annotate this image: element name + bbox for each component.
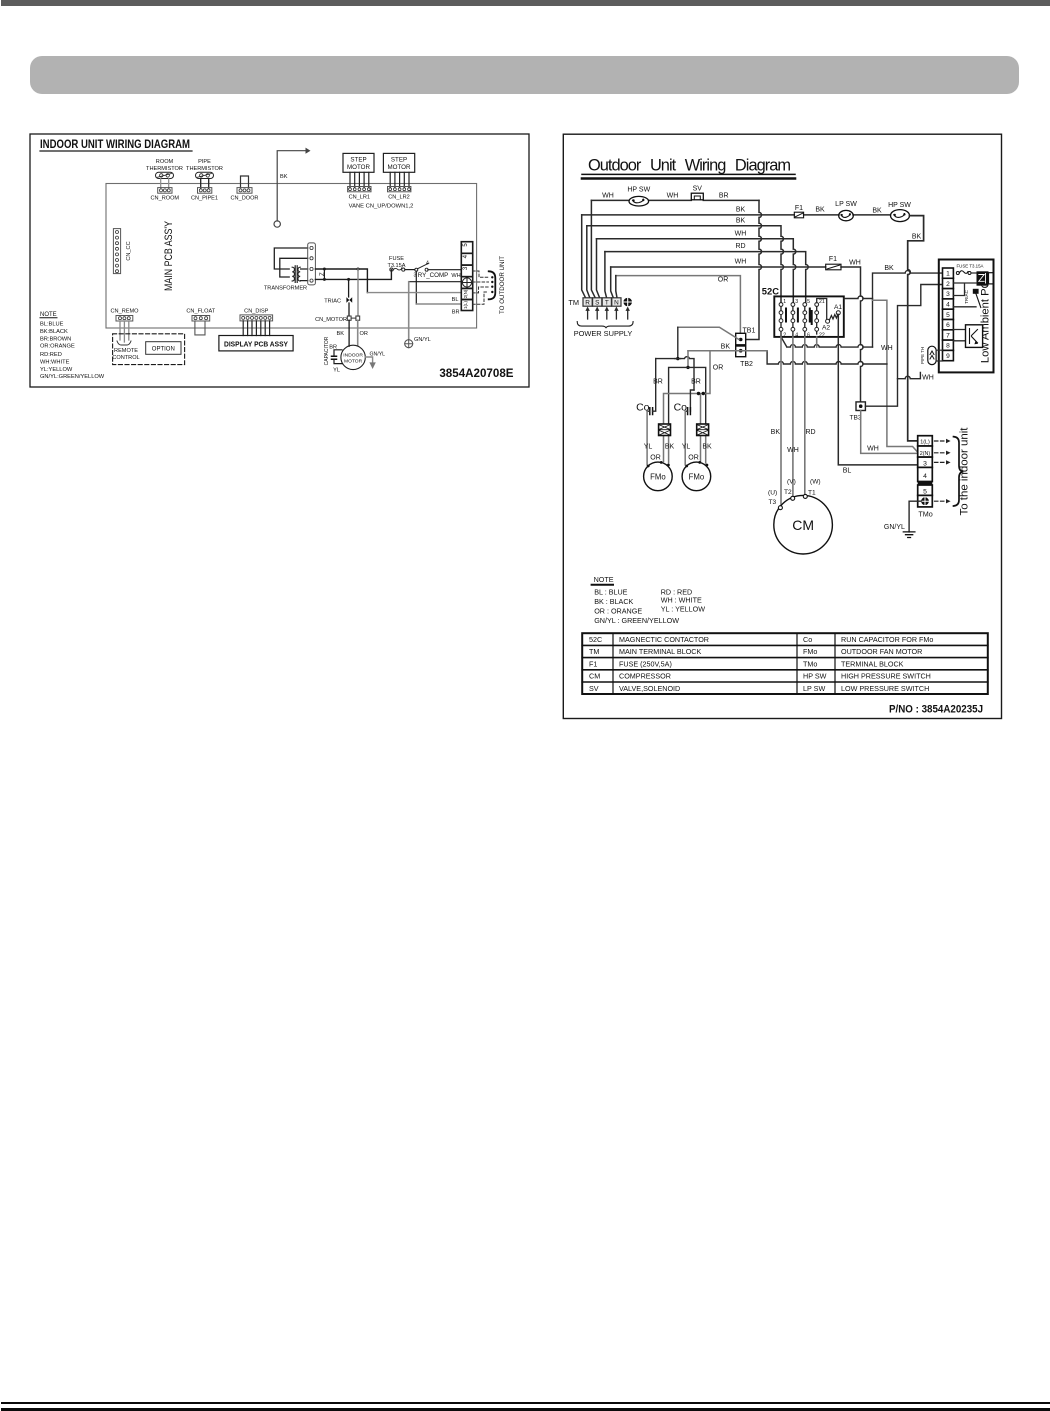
option box (146, 342, 181, 355)
svg-text:GN/YL:GREEN/YELLOW: GN/YL:GREEN/YELLOW (40, 374, 105, 380)
gray rounded header band (30, 56, 1019, 94)
wire BL from coil A1 to TMo 3 (838, 315, 917, 465)
wire BK triac branch (348, 279, 350, 316)
connector CN_TRANS (308, 243, 316, 285)
svg-text:LP SW: LP SW (803, 684, 825, 693)
svg-text:R: R (585, 300, 590, 307)
power supply arrows (588, 309, 628, 320)
PCB transformer blob (977, 271, 989, 285)
svg-text:4: 4 (426, 261, 429, 267)
svg-text:3: 3 (795, 299, 798, 305)
transformer T1 (292, 266, 308, 283)
svg-text:P/NO : 3854A20235J: P/NO : 3854A20235J (889, 704, 983, 716)
svg-text:OR : ORANGE: OR : ORANGE (594, 606, 642, 615)
PCB pipe thermistor (928, 346, 936, 364)
PCB terminal strip 1-9 (943, 268, 954, 361)
svg-text:YL : YELLOW: YL : YELLOW (661, 604, 706, 613)
wire GN/YL earth arrow (365, 357, 372, 362)
ground symbol (903, 532, 915, 538)
52C contact bars (786, 309, 812, 325)
svg-text:CN_PIPE1: CN_PIPE1 (191, 196, 218, 202)
wire 52C col1 BK to compressor (780, 337, 782, 506)
svg-text:CN_CC: CN_CC (126, 241, 132, 260)
svg-text:Low Ambient PCB: Low Ambient PCB (980, 273, 992, 363)
wires CN_REMO down (120, 321, 129, 342)
wire BK with arrow (277, 151, 306, 221)
wire rail H2 BK (669, 367, 706, 424)
svg-text:NOTE: NOTE (40, 312, 57, 318)
svg-text:4: 4 (946, 302, 950, 309)
svg-text:BK: BK (721, 344, 731, 351)
svg-text:GN/YL: GN/YL (370, 352, 386, 358)
wire TB3 tap to PCB (865, 285, 942, 407)
svg-text:BL: BL (843, 468, 852, 475)
svg-text:OR: OR (718, 277, 729, 284)
wire YL1 (646, 411, 648, 465)
svg-text:BL:BLUE: BL:BLUE (40, 321, 64, 327)
svg-text:8: 8 (946, 343, 950, 350)
line B BK rail (767, 351, 887, 364)
svg-text:FMo: FMo (803, 647, 817, 656)
svg-text:A1: A1 (834, 304, 842, 311)
overload protector 2 (701, 424, 706, 463)
svg-text:OUTDOOR FAN MOTOR: OUTDOOR FAN MOTOR (841, 647, 922, 656)
step motor 1 (343, 153, 374, 172)
svg-text:YL:YELLOW: YL:YELLOW (40, 367, 73, 373)
svg-text:MAIN PCB ASS'Y: MAIN PCB ASS'Y (163, 220, 175, 291)
wire row4 WH to 52C pin3 (597, 239, 796, 303)
svg-text:NOTE: NOTE (594, 575, 614, 584)
svg-text:CN_FLOAT: CN_FLOAT (186, 309, 215, 315)
svg-text:2: 2 (783, 333, 786, 339)
svg-text:TM: TM (589, 647, 599, 656)
node junction BK (347, 278, 350, 281)
svg-text:HP SW: HP SW (888, 202, 911, 209)
svg-text:WH: WH (451, 273, 460, 279)
svg-text:RD: RD (735, 243, 745, 250)
svg-text:CN_DISP: CN_DISP (244, 309, 269, 315)
step motor 2 (383, 153, 414, 172)
svg-text:RY_COMP: RY_COMP (418, 272, 449, 279)
triac (346, 297, 352, 303)
wire row3 BK to 52C pin1 (587, 226, 784, 303)
svg-text:TB2: TB2 (740, 361, 753, 368)
svg-text:9: 9 (946, 353, 950, 360)
svg-text:2(N): 2(N) (463, 289, 468, 298)
svg-text:CN_LR2: CN_LR2 (388, 195, 409, 201)
wire row2 BK fuse LPSW HPSW (582, 214, 891, 216)
svg-text:CM: CM (589, 672, 600, 681)
svg-text:BK: BK (337, 331, 345, 337)
svg-text:4: 4 (463, 254, 469, 258)
fan motor FMo 2 (682, 462, 711, 491)
svg-text:(U): (U) (768, 490, 777, 497)
wire loop above CN_DOOR (241, 176, 249, 188)
svg-text:FMo: FMo (650, 472, 666, 481)
svg-text:4: 4 (795, 333, 798, 339)
svg-text:MOTOR: MOTOR (388, 164, 411, 171)
svg-text:WH:WHITE: WH:WHITE (40, 360, 70, 366)
connector CN_CC (113, 229, 120, 274)
PCB wire cell4 (953, 306, 976, 308)
52C contacts (781, 306, 817, 337)
svg-text:YL: YL (644, 444, 653, 451)
svg-text:TMo: TMo (918, 510, 932, 519)
wire BR1 (690, 390, 694, 411)
svg-text:OR: OR (713, 365, 724, 372)
wire 52C pin2 to line A (781, 337, 873, 347)
wire TB3 to TMo 2N WH (861, 411, 918, 454)
svg-text:6: 6 (946, 322, 950, 329)
svg-text:BK: BK (736, 207, 746, 214)
svg-text:INDOOR UNIT WIRING DIAGRAM: INDOOR UNIT WIRING DIAGRAM (40, 138, 190, 151)
run capacitor (332, 356, 337, 359)
svg-text:WH: WH (867, 446, 879, 453)
left feeder verticals to TM (582, 200, 617, 297)
wire row7 OR to TB1 (616, 276, 741, 334)
remote control dashed box (113, 334, 185, 365)
svg-text:BK: BK (815, 207, 825, 214)
svg-text:CN_LR1: CN_LR1 (349, 195, 370, 201)
wire TMo earth to ground (909, 501, 921, 532)
wire gray into TB1 (678, 327, 739, 339)
svg-text:Outdoor Unit Wiring Diagram: Outdoor Unit Wiring Diagram (588, 157, 791, 175)
svg-text:BK: BK (736, 218, 746, 225)
terminal TB3 (856, 402, 865, 411)
wire relay to terminal 3 (428, 269, 461, 271)
svg-text:52C: 52C (762, 286, 779, 297)
wires pipe thermistor to CN_PIPE1 (201, 179, 209, 189)
svg-text:GN/YL: GN/YL (414, 337, 431, 343)
svg-text:5: 5 (923, 488, 927, 495)
PCB optocoupler (953, 330, 965, 341)
wire PCB bottom WH (898, 372, 921, 378)
svg-text:WH: WH (922, 375, 934, 382)
wire row6 WH through F1 to TB3 (611, 267, 863, 402)
svg-text:WH: WH (602, 193, 614, 200)
svg-text:REMOTE: REMOTE (114, 348, 138, 354)
fuse symbol (390, 268, 393, 271)
wires to indoor motor (348, 320, 350, 346)
svg-text:3: 3 (946, 291, 950, 298)
svg-text:COMPRESSOR: COMPRESSOR (619, 672, 671, 681)
svg-text:TRANSFORMER: TRANSFORMER (264, 286, 307, 292)
wire earth terminal to chassis (409, 281, 462, 283)
transformer primary loop outer (274, 248, 307, 269)
svg-text:BK: BK (884, 265, 894, 272)
compressor CM (774, 495, 833, 554)
svg-text:HP SW: HP SW (803, 672, 827, 681)
svg-text:A2: A2 (822, 325, 830, 332)
overload protector 1 (664, 424, 669, 463)
svg-text:BR: BR (719, 193, 729, 200)
svg-text:PIPE TH: PIPE TH (920, 347, 925, 364)
svg-text:CONTROL: CONTROL (112, 355, 139, 361)
wires step motor 2 (390, 172, 409, 187)
wire YL from capacitor (334, 360, 343, 364)
footer thick rule (1, 1408, 1050, 1411)
wire rail H1 BR (656, 327, 694, 390)
svg-text:BR: BR (653, 379, 663, 386)
legend table (582, 633, 988, 694)
svg-text:BK:BLACK: BK:BLACK (40, 329, 68, 335)
indoor diagram frame (30, 134, 529, 387)
svg-text:3: 3 (463, 266, 469, 270)
svg-text:POWER SUPPLY: POWER SUPPLY (574, 329, 633, 338)
svg-text:WH: WH (667, 193, 679, 200)
svg-text:Z: Z (320, 272, 326, 276)
svg-text:MAGNECTIC CONTACTOR: MAGNECTIC CONTACTOR (619, 635, 709, 644)
svg-text:BK: BK (702, 444, 712, 451)
svg-text:HP SW: HP SW (627, 187, 650, 194)
power supply brace (577, 322, 633, 329)
svg-text:CAPACITOR: CAPACITOR (324, 336, 330, 365)
svg-text:CN_ROOM: CN_ROOM (151, 196, 180, 202)
terminal strip to outdoor (461, 242, 472, 311)
wires step motor 1 (350, 172, 369, 187)
svg-text:OR:ORANGE: OR:ORANGE (40, 344, 75, 350)
svg-text:WH: WH (881, 345, 893, 352)
svg-text:BL: BL (452, 297, 459, 303)
svg-text:TRIAC: TRIAC (324, 299, 341, 305)
svg-text:5: 5 (463, 243, 469, 247)
svg-text:STEP: STEP (350, 157, 366, 164)
svg-text:BK: BK (771, 429, 781, 436)
wire rail H3 OR (664, 351, 711, 424)
wire A2 line to BK node (844, 296, 873, 299)
svg-text:RD: RD (806, 429, 816, 436)
svg-text:(W): (W) (810, 479, 821, 486)
wire 52C col4 stub (816, 337, 818, 347)
wire BR to capacitor (334, 350, 342, 356)
wire BK from HPSW to TMo 1L (908, 216, 924, 441)
svg-text:BK : BLACK: BK : BLACK (594, 597, 633, 606)
wire upper y269 (315, 269, 367, 293)
svg-text:THERMISTOR: THERMISTOR (186, 166, 223, 172)
wires room thermistor to CN_ROOM (161, 179, 169, 189)
svg-text:T: T (605, 300, 609, 307)
svg-text:VANE CN_UP/DOWN1,2: VANE CN_UP/DOWN1,2 (349, 204, 414, 210)
svg-text:5: 5 (946, 312, 950, 319)
wire YL2 (684, 411, 686, 465)
svg-text:3: 3 (923, 460, 927, 467)
svg-text:5: 5 (807, 299, 810, 305)
svg-text:OR: OR (360, 331, 368, 337)
connector CN_LR2 (388, 187, 411, 192)
svg-text:MOTOR: MOTOR (347, 164, 370, 171)
node junction OR (357, 268, 360, 271)
svg-text:F1: F1 (829, 256, 837, 263)
svg-text:INDOOR: INDOOR (343, 352, 363, 358)
transformer primary loop inner (280, 258, 308, 277)
svg-text:HIGH PRESSURE SWITCH: HIGH PRESSURE SWITCH (841, 672, 931, 681)
svg-text:PIPE: PIPE (198, 159, 211, 165)
svg-text:F1: F1 (795, 205, 803, 212)
dashed links to outdoor bracket (473, 271, 489, 304)
svg-text:OPTION: OPTION (152, 347, 175, 353)
PCB wire cell2 cell3 (953, 283, 976, 296)
svg-text:21: 21 (819, 299, 825, 305)
svg-text:LP SW: LP SW (835, 201, 857, 208)
wire lower y279.4 (315, 270, 391, 280)
svg-text:STEP: STEP (391, 157, 407, 164)
wire BR from SV down to TB1 (746, 200, 762, 339)
wire BK TB2 rail (688, 350, 767, 352)
footer thin rule (1, 1402, 1050, 1404)
svg-text:RD:RED: RD:RED (40, 352, 62, 358)
svg-text:BR: BR (691, 379, 701, 386)
52C pin21 link to coil (817, 299, 827, 320)
svg-text:ROOM: ROOM (156, 159, 174, 165)
top dark bar (1, 0, 1050, 6)
svg-text:TM: TM (568, 298, 579, 307)
bracket to outdoor (489, 271, 496, 299)
svg-text:To the indoor unit: To the indoor unit (959, 428, 971, 516)
connector CN_LR1 (348, 187, 371, 192)
dashed arrows to indoor (935, 441, 947, 501)
svg-text:SV: SV (589, 684, 599, 693)
svg-text:DISPLAY PCB ASSY: DISPLAY PCB ASSY (224, 340, 288, 349)
wire gray branch to TMo 2N (873, 300, 918, 452)
svg-text:1(L): 1(L) (920, 440, 930, 446)
low ambient PCB box (939, 260, 994, 373)
wire TB2 drop (687, 351, 689, 368)
svg-text:3854A20708E: 3854A20708E (439, 367, 513, 380)
svg-text:F1: F1 (589, 659, 597, 668)
wire 52C col2 WH to compressor (792, 337, 794, 496)
connector CN_DOOR (237, 188, 252, 194)
wire loop below CN_FLOAT (195, 321, 205, 335)
wire row5 RD to 52C pin5 (605, 252, 808, 303)
svg-text:BK: BK (912, 233, 922, 240)
svg-text:FUSE: FUSE (389, 256, 404, 262)
wire OR branch (357, 269, 359, 316)
svg-text:TERMINAL BLOCK: TERMINAL BLOCK (841, 659, 904, 668)
indoor motor (341, 345, 365, 369)
connector CN_ROOM (158, 188, 172, 194)
chassis earth circle (405, 340, 413, 348)
terminal block TMo (918, 436, 933, 507)
connector CN_PIPE1 (198, 188, 212, 194)
wire transformer to terminal 2 (367, 292, 461, 294)
svg-text:4: 4 (923, 473, 927, 480)
svg-text:CM: CM (792, 517, 814, 533)
PCB fuse symbol (956, 272, 959, 275)
svg-text:OR: OR (650, 454, 661, 461)
wire 52C col3 RD to compressor (804, 337, 806, 494)
svg-text:WH: WH (787, 447, 799, 454)
svg-text:6: 6 (807, 333, 810, 339)
wires CN_DISP to display pcb (243, 321, 269, 336)
svg-text:THERMISTOR: THERMISTOR (146, 166, 183, 172)
svg-text:N: N (614, 300, 619, 307)
svg-text:WH: WH (735, 259, 747, 266)
svg-text:YL: YL (682, 444, 691, 451)
wire BK terminal1 of PCB (873, 271, 943, 348)
earth terminal (623, 298, 632, 307)
svg-text:BK: BK (665, 444, 675, 451)
svg-text:1: 1 (946, 271, 950, 278)
52C pin numbers (783, 299, 825, 339)
outdoor diagram frame (563, 134, 1001, 718)
svg-text:BR:BROWN: BR:BROWN (40, 336, 71, 342)
svg-text:MAIN TERMINAL BLOCK: MAIN TERMINAL BLOCK (619, 647, 701, 656)
svg-text:1(L): 1(L) (463, 301, 468, 309)
svg-text:BK: BK (280, 174, 288, 180)
svg-text:FUSE (250V,5A): FUSE (250V,5A) (619, 659, 672, 668)
svg-text:BR: BR (452, 310, 460, 316)
svg-text:FUSE T3.15A: FUSE T3.15A (956, 264, 983, 269)
svg-text:CN_MOTOR: CN_MOTOR (315, 317, 347, 323)
svg-text:S: S (595, 300, 599, 307)
relay RY_COMP (415, 268, 418, 271)
svg-text:2(N): 2(N) (920, 451, 931, 457)
svg-text:BL : BLUE: BL : BLUE (594, 588, 627, 597)
svg-text:CN_DOOR: CN_DOOR (231, 196, 259, 202)
svg-text:T3: T3 (769, 499, 777, 506)
svg-text:22: 22 (819, 333, 825, 339)
wire fuse to relay (405, 269, 415, 271)
svg-text:BK: BK (872, 208, 882, 215)
wire relay 3 down to terminal 1 (415, 271, 417, 304)
svg-text:BR: BR (329, 345, 337, 351)
svg-text:LOW PRESSURE SWITCH: LOW PRESSURE SWITCH (841, 684, 929, 693)
svg-text:7: 7 (946, 332, 950, 339)
display pcb assy box (219, 336, 293, 351)
svg-text:MOTOR: MOTOR (344, 358, 363, 364)
svg-text:GN/YL : GREEN/YELLOW: GN/YL : GREEN/YELLOW (594, 616, 679, 625)
svg-text:TRIAC: TRIAC (964, 289, 969, 303)
svg-text:Co: Co (803, 635, 812, 644)
svg-text:1: 1 (783, 299, 786, 305)
svg-text:52C: 52C (589, 635, 602, 644)
svg-text:WH: WH (849, 260, 861, 267)
svg-text:SV: SV (693, 186, 703, 193)
svg-text:2: 2 (946, 281, 950, 288)
brace to the indoor unit (954, 437, 964, 506)
varistor Z (323, 269, 325, 279)
svg-text:(V): (V) (787, 479, 796, 486)
svg-text:RUN CAPACITOR FOR FMo: RUN CAPACITOR FOR FMo (841, 635, 933, 644)
svg-text:T2: T2 (784, 489, 792, 496)
fan motor FMo 1 (644, 462, 673, 491)
svg-text:WH : WHITE: WH : WHITE (661, 595, 702, 604)
svg-text:TO OUTDOOR UNIT: TO OUTDOOR UNIT (499, 256, 506, 314)
svg-text:OR: OR (688, 454, 699, 461)
svg-text:WH: WH (735, 230, 747, 237)
svg-text:GN/YL: GN/YL (884, 524, 905, 531)
svg-text:YL: YL (333, 368, 340, 374)
main PCB assy outline (106, 184, 477, 329)
wire row1 WH-HPSW-SV-BR (591, 199, 759, 201)
svg-text:FMo: FMo (689, 472, 705, 481)
svg-text:CN_REMO: CN_REMO (111, 309, 140, 315)
svg-text:VALVE,SOLENOID: VALVE,SOLENOID (619, 684, 680, 693)
svg-text:TMo: TMo (803, 659, 817, 668)
